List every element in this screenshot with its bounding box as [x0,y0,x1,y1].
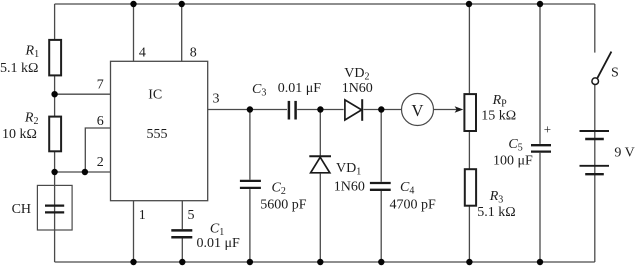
svg-text:8: 8 [190,45,197,60]
svg-text:2: 2 [97,155,104,170]
svg-text:1: 1 [139,208,146,223]
svg-text:5: 5 [188,208,195,223]
svg-text:555: 555 [147,127,168,142]
svg-text:4: 4 [139,45,146,60]
svg-text:1N60: 1N60 [334,179,365,194]
svg-text:+: + [544,122,551,137]
svg-text:IC: IC [148,87,162,102]
svg-text:6: 6 [97,114,104,129]
svg-text:7: 7 [97,78,104,93]
svg-text:10 kΩ: 10 kΩ [2,127,37,142]
svg-text:1N60: 1N60 [342,81,373,96]
svg-text:4700 pF: 4700 pF [390,197,437,212]
svg-text:0.01 μF: 0.01 μF [278,81,322,96]
svg-text:3: 3 [213,92,220,107]
svg-text:5.1 kΩ: 5.1 kΩ [477,205,515,220]
svg-text:100 μF: 100 μF [493,154,533,169]
svg-text:15 kΩ: 15 kΩ [481,108,516,123]
svg-text:5600 pF: 5600 pF [260,197,307,212]
svg-text:5.1 kΩ: 5.1 kΩ [0,61,38,76]
svg-text:CH: CH [12,202,31,217]
svg-text:9 V: 9 V [614,146,634,161]
svg-text:V: V [412,101,424,120]
svg-text:S: S [611,65,619,80]
svg-text:0.01 μF: 0.01 μF [197,236,241,251]
